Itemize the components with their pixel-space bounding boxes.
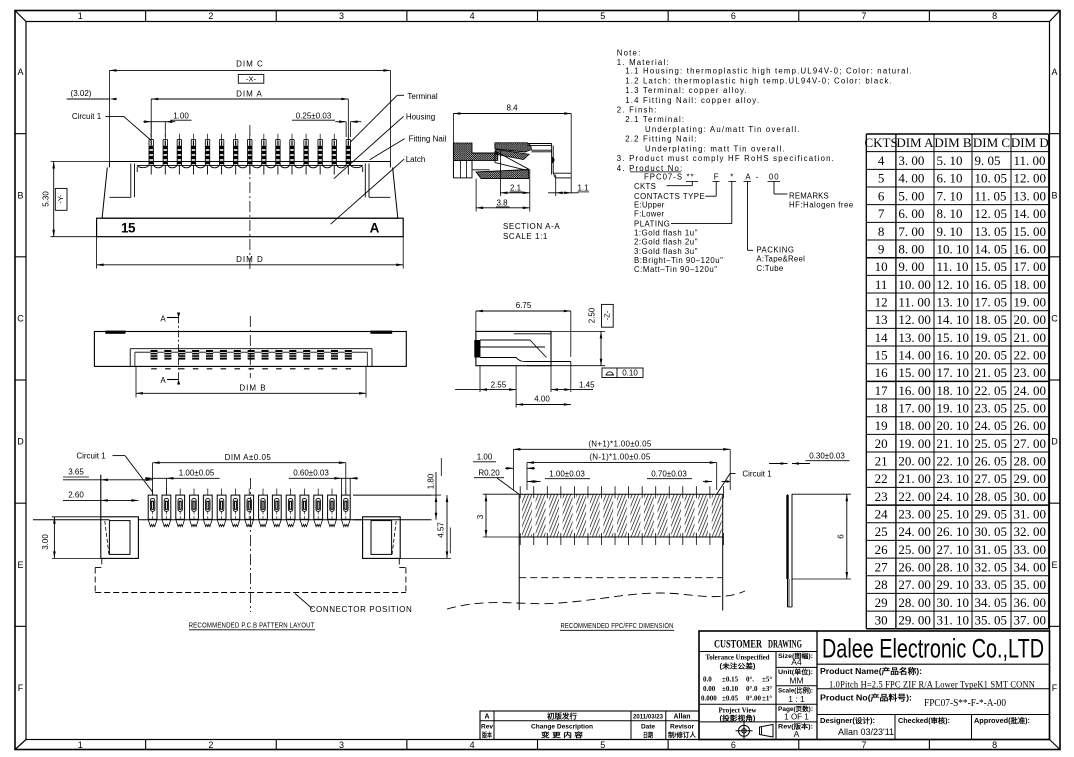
- svg-text:6. 00: 6. 00: [898, 206, 924, 221]
- svg-text:0.10: 0.10: [622, 369, 638, 378]
- svg-text:2.55: 2.55: [491, 380, 507, 389]
- svg-text:*: *: [730, 173, 733, 182]
- svg-text:19: 19: [875, 418, 888, 433]
- svg-text:27: 27: [875, 559, 889, 574]
- svg-text:日期: 日期: [643, 730, 653, 739]
- svg-text:21: 21: [875, 453, 888, 468]
- svg-text:14. 05: 14. 05: [975, 241, 1008, 256]
- svg-text:15. 05: 15. 05: [975, 259, 1008, 274]
- svg-text:27. 10: 27. 10: [937, 542, 970, 557]
- svg-text:8: 8: [992, 11, 997, 21]
- svg-text:1 : 1: 1 : 1: [788, 694, 805, 704]
- svg-text:C:Tube: C:Tube: [756, 264, 783, 273]
- svg-text:31. 00: 31. 00: [1014, 506, 1047, 521]
- svg-text:35. 05: 35. 05: [975, 612, 1008, 627]
- svg-text:17. 00: 17. 00: [1014, 259, 1047, 274]
- svg-text:1.00±0.03: 1.00±0.03: [549, 469, 585, 478]
- svg-text:0.000: 0.000: [701, 695, 717, 703]
- svg-text:DIM C: DIM C: [236, 60, 264, 69]
- svg-text:19. 00: 19. 00: [1014, 294, 1047, 309]
- svg-text:版本: 版本: [481, 730, 492, 739]
- svg-text:26. 05: 26. 05: [975, 453, 1008, 468]
- svg-text:Product No(产品料号):: Product No(产品料号):: [820, 693, 912, 703]
- svg-text:PLATING: PLATING: [634, 219, 670, 228]
- svg-text:9: 9: [878, 241, 885, 256]
- svg-text:24. 00: 24. 00: [1014, 383, 1047, 398]
- svg-text:D: D: [1051, 437, 1058, 447]
- svg-text:5: 5: [600, 740, 605, 750]
- svg-text:7. 10: 7. 10: [937, 188, 963, 203]
- svg-text:26. 00: 26. 00: [898, 559, 931, 574]
- svg-text:13: 13: [875, 312, 888, 327]
- svg-text:2.1 Terminal:: 2.1 Terminal:: [625, 115, 685, 124]
- svg-text:DIM D: DIM D: [1011, 135, 1049, 150]
- svg-text:23. 05: 23. 05: [975, 400, 1008, 415]
- svg-text:3.8: 3.8: [496, 198, 508, 207]
- svg-text:MM: MM: [789, 675, 803, 685]
- svg-text:Dalee Electronic Co.,LTD: Dalee Electronic Co.,LTD: [822, 634, 1044, 664]
- svg-text:24. 10: 24. 10: [937, 489, 970, 504]
- svg-text:16. 10: 16. 10: [937, 347, 970, 362]
- svg-text:21. 10: 21. 10: [937, 436, 970, 451]
- svg-text:A: A: [160, 376, 166, 385]
- svg-text:29. 05: 29. 05: [975, 506, 1008, 521]
- svg-text:25. 00: 25. 00: [1014, 400, 1047, 415]
- svg-text:11. 10: 11. 10: [937, 259, 969, 274]
- svg-text:25. 05: 25. 05: [975, 436, 1008, 451]
- svg-text:6: 6: [878, 188, 885, 203]
- svg-text:1.00±0.05: 1.00±0.05: [179, 469, 215, 478]
- svg-text:22. 10: 22. 10: [937, 453, 970, 468]
- svg-text:3.00: 3.00: [41, 534, 50, 550]
- svg-text:4.00: 4.00: [534, 395, 550, 404]
- svg-text:Designer(设计):: Designer(设计):: [820, 716, 875, 725]
- svg-text:27. 00: 27. 00: [1014, 436, 1047, 451]
- svg-text:A: A: [1051, 67, 1057, 77]
- svg-text:27. 00: 27. 00: [898, 577, 931, 592]
- svg-text:1.3 Terminal: copper alloy.: 1.3 Terminal: copper alloy.: [625, 86, 748, 95]
- svg-text:22. 00: 22. 00: [1014, 347, 1047, 362]
- svg-text:10: 10: [875, 259, 888, 274]
- svg-text:1.1 Housing: thermoplastic: 1.1 Housing: thermoplastic high temp.UL9…: [625, 67, 913, 76]
- svg-text:PACKING: PACKING: [756, 246, 794, 255]
- svg-text:0.60±0.03: 0.60±0.03: [293, 469, 329, 478]
- svg-text:2.1: 2.1: [510, 183, 522, 192]
- svg-text:DIM B: DIM B: [239, 383, 266, 392]
- svg-text:1: 1: [78, 740, 83, 750]
- svg-text:32. 00: 32. 00: [1014, 524, 1047, 539]
- svg-text:13. 05: 13. 05: [975, 224, 1008, 239]
- svg-text:13. 10: 13. 10: [937, 294, 970, 309]
- svg-text:4. 00: 4. 00: [898, 171, 924, 186]
- svg-text:12. 00: 12. 00: [1014, 171, 1047, 186]
- svg-text:11. 00: 11. 00: [1014, 153, 1046, 168]
- svg-text:21. 00: 21. 00: [898, 471, 931, 486]
- svg-text:Revisor: Revisor: [670, 723, 694, 730]
- svg-text:20: 20: [875, 436, 888, 451]
- svg-text:C: C: [1051, 313, 1058, 323]
- svg-text:FPC07-S: FPC07-S: [644, 173, 683, 182]
- svg-text:0.30±0.03: 0.30±0.03: [809, 451, 845, 460]
- svg-text:A: A: [160, 314, 166, 323]
- svg-text:F:Lower: F:Lower: [634, 209, 664, 218]
- svg-text:23: 23: [875, 489, 888, 504]
- svg-text:Circuit 1: Circuit 1: [742, 469, 772, 478]
- svg-text:15: 15: [121, 221, 136, 236]
- svg-text:18. 05: 18. 05: [975, 312, 1008, 327]
- svg-text:22. 05: 22. 05: [975, 383, 1008, 398]
- svg-text:Change Description: Change Description: [531, 723, 593, 730]
- svg-text:24: 24: [875, 506, 889, 521]
- svg-text:1.80: 1.80: [426, 473, 435, 489]
- svg-text:9. 10: 9. 10: [937, 224, 963, 239]
- svg-text:22. 00: 22. 00: [898, 489, 931, 504]
- svg-text:17: 17: [875, 383, 889, 398]
- svg-text:E: E: [17, 560, 23, 570]
- svg-text:12. 00: 12. 00: [898, 312, 931, 327]
- svg-text:36. 00: 36. 00: [1014, 595, 1047, 610]
- svg-text:A: A: [370, 221, 380, 236]
- svg-text:19. 00: 19. 00: [898, 436, 931, 451]
- svg-text:12. 05: 12. 05: [975, 206, 1008, 221]
- svg-text:5. 00: 5. 00: [898, 188, 924, 203]
- svg-text:2: 2: [208, 740, 213, 750]
- svg-text:Underplating: matt Tin over: Underplating: matt Tin overall.: [645, 144, 786, 153]
- svg-text:29. 10: 29. 10: [937, 577, 970, 592]
- svg-text:8.4: 8.4: [506, 104, 518, 113]
- svg-text:4: 4: [470, 740, 475, 750]
- svg-text:±0.05: ±0.05: [722, 695, 739, 703]
- svg-text:28. 00: 28. 00: [898, 595, 931, 610]
- svg-text:3:Gold flash 3u": 3:Gold flash 3u": [634, 247, 698, 256]
- svg-text:22: 22: [875, 471, 888, 486]
- svg-text:35. 00: 35. 00: [1014, 577, 1047, 592]
- svg-text:7: 7: [862, 740, 867, 750]
- svg-text:17. 05: 17. 05: [975, 294, 1008, 309]
- svg-text:6. 10: 6. 10: [937, 171, 963, 186]
- svg-text:±1°: ±1°: [762, 695, 772, 703]
- svg-text:20. 00: 20. 00: [898, 453, 931, 468]
- svg-text:Allan 03/23'11: Allan 03/23'11: [838, 727, 894, 737]
- svg-text:F: F: [18, 683, 24, 693]
- svg-text:10. 10: 10. 10: [937, 241, 970, 256]
- svg-text:3. Product must comply HF: 3. Product must comply HF RoHS specifica…: [617, 154, 835, 163]
- svg-text:32. 05: 32. 05: [975, 559, 1008, 574]
- svg-text:制/修订人: 制/修订人: [668, 730, 696, 739]
- svg-text:28. 00: 28. 00: [1014, 453, 1047, 468]
- svg-text:31. 05: 31. 05: [975, 542, 1008, 557]
- svg-text:±0.10: ±0.10: [722, 685, 739, 693]
- svg-text:Project View: Project View: [719, 706, 758, 714]
- svg-text:2.60: 2.60: [68, 491, 84, 500]
- svg-text:DIM A: DIM A: [896, 135, 934, 150]
- svg-text:7: 7: [862, 11, 867, 21]
- svg-text:18. 10: 18. 10: [937, 383, 970, 398]
- svg-text:30. 00: 30. 00: [1014, 489, 1047, 504]
- svg-text:B: B: [17, 190, 23, 200]
- svg-text:11: 11: [875, 277, 888, 292]
- svg-text:29: 29: [875, 595, 888, 610]
- svg-text:20. 00: 20. 00: [1014, 312, 1047, 327]
- svg-text:R0.20: R0.20: [478, 468, 500, 477]
- svg-text:20. 10: 20. 10: [937, 418, 970, 433]
- svg-text:19. 05: 19. 05: [975, 330, 1008, 345]
- svg-text:15. 10: 15. 10: [937, 330, 970, 345]
- svg-text:15. 00: 15. 00: [1014, 224, 1047, 239]
- svg-text:26. 00: 26. 00: [1014, 418, 1047, 433]
- svg-text:25: 25: [875, 524, 888, 539]
- svg-text:21. 05: 21. 05: [975, 365, 1008, 380]
- svg-text:21. 00: 21. 00: [1014, 330, 1047, 345]
- svg-text:9. 00: 9. 00: [898, 259, 924, 274]
- svg-text:4: 4: [470, 11, 475, 21]
- svg-text:1.1: 1.1: [577, 183, 589, 192]
- svg-text:12. 10: 12. 10: [937, 277, 970, 292]
- svg-text:26. 10: 26. 10: [937, 524, 970, 539]
- svg-text:Note:: Note:: [617, 48, 642, 57]
- svg-text:Housing: Housing: [406, 113, 435, 122]
- svg-text:3: 3: [339, 11, 344, 21]
- svg-text:-: -: [756, 173, 759, 182]
- svg-text:REMARKS: REMARKS: [789, 191, 829, 200]
- svg-text:8. 00: 8. 00: [898, 241, 924, 256]
- svg-text:18. 00: 18. 00: [1014, 277, 1047, 292]
- svg-text:17. 10: 17. 10: [937, 365, 970, 380]
- svg-text:DIM D: DIM D: [236, 255, 264, 264]
- svg-text:6.75: 6.75: [516, 301, 532, 310]
- svg-text:14. 00: 14. 00: [1014, 206, 1047, 221]
- svg-text:Circuit 1: Circuit 1: [72, 112, 102, 121]
- svg-text:Allan: Allan: [673, 713, 690, 720]
- svg-text:6: 6: [731, 740, 736, 750]
- svg-text:11. 00: 11. 00: [898, 294, 930, 309]
- svg-text:F: F: [1052, 683, 1058, 693]
- svg-text:17. 00: 17. 00: [898, 400, 931, 415]
- svg-text:25. 10: 25. 10: [937, 506, 970, 521]
- svg-text:FPC07-S**-F-*-A-00: FPC07-S**-F-*-A-00: [924, 698, 1006, 709]
- svg-text:1: 1: [78, 11, 83, 21]
- svg-text:A: A: [745, 173, 751, 182]
- svg-text:33. 05: 33. 05: [975, 577, 1008, 592]
- svg-text:5: 5: [600, 11, 605, 21]
- svg-text:20. 05: 20. 05: [975, 347, 1008, 362]
- svg-text:(N-1)*1.00±0.05: (N-1)*1.00±0.05: [589, 453, 651, 462]
- svg-text:DIM B: DIM B: [934, 135, 972, 150]
- svg-text:0°.00: 0°.00: [746, 695, 762, 703]
- svg-text:12: 12: [875, 294, 888, 309]
- svg-text:2:Gold flash 2u": 2:Gold flash 2u": [634, 238, 698, 247]
- svg-text:16. 00: 16. 00: [898, 383, 931, 398]
- svg-text:7: 7: [878, 206, 885, 221]
- svg-text:34. 05: 34. 05: [975, 595, 1008, 610]
- svg-text:8: 8: [992, 740, 997, 750]
- svg-text:(N+1)*1.00±0.05: (N+1)*1.00±0.05: [588, 439, 652, 448]
- svg-text:CKTS: CKTS: [634, 182, 656, 191]
- svg-text:26: 26: [875, 542, 889, 557]
- svg-text:24. 05: 24. 05: [975, 418, 1008, 433]
- svg-text:±5°: ±5°: [762, 676, 772, 684]
- svg-text:1.00: 1.00: [477, 453, 493, 462]
- svg-text:-X-: -X-: [246, 75, 257, 84]
- svg-text:2011/03/23: 2011/03/23: [633, 713, 663, 720]
- svg-text:3.65: 3.65: [68, 467, 84, 476]
- svg-text:29. 00: 29. 00: [898, 612, 931, 627]
- svg-text:10. 05: 10. 05: [975, 171, 1008, 186]
- svg-text:23. 10: 23. 10: [937, 471, 970, 486]
- svg-text:24. 00: 24. 00: [898, 524, 931, 539]
- svg-text:A:Tape&Reel: A:Tape&Reel: [756, 255, 805, 264]
- svg-text:SECTION A-A: SECTION A-A: [503, 222, 560, 231]
- svg-text:5. 10: 5. 10: [937, 153, 963, 168]
- svg-text:3: 3: [339, 740, 344, 750]
- svg-text:±0.15: ±0.15: [722, 676, 739, 684]
- svg-text:3. 00: 3. 00: [898, 153, 924, 168]
- svg-text:31. 10: 31. 10: [937, 612, 970, 627]
- svg-text:Tolerance Unspecified: Tolerance Unspecified: [706, 653, 770, 661]
- svg-text:1 OF 1: 1 OF 1: [784, 713, 809, 722]
- svg-text:Rev: Rev: [481, 723, 493, 730]
- svg-text:Approved(批准):: Approved(批准):: [974, 716, 1030, 725]
- svg-text:B:Bright–Tin 90–120u": B:Bright–Tin 90–120u": [634, 256, 723, 265]
- svg-text:4. Product No:: 4. Product No:: [617, 164, 684, 173]
- svg-text:0.00: 0.00: [703, 685, 716, 693]
- svg-text:1.2 Latch: thermoplastic hi: 1.2 Latch: thermoplastic high temp.UL94V…: [625, 76, 893, 85]
- svg-text:HF:Halogen free: HF:Halogen free: [789, 201, 854, 210]
- svg-text:9. 05: 9. 05: [975, 153, 1001, 168]
- svg-text:6: 6: [837, 534, 846, 539]
- svg-text:A: A: [484, 713, 489, 720]
- svg-text:B: B: [1051, 190, 1057, 200]
- svg-text:25. 00: 25. 00: [898, 542, 931, 557]
- svg-text:23. 00: 23. 00: [1014, 365, 1047, 380]
- svg-text:C:Matt–Tin 90–120u": C:Matt–Tin 90–120u": [634, 265, 718, 274]
- svg-text:(3.02): (3.02): [71, 89, 92, 98]
- svg-text:2.50: 2.50: [588, 307, 597, 323]
- svg-text:11. 05: 11. 05: [975, 188, 1007, 203]
- svg-text:CONNECTOR POSITION: CONNECTOR POSITION: [310, 605, 413, 614]
- svg-text:CUSTOMER: CUSTOMER: [714, 639, 762, 651]
- svg-text:1:Gold flash 1u": 1:Gold flash 1u": [634, 229, 698, 238]
- svg-text:C: C: [17, 313, 24, 323]
- svg-text:15. 00: 15. 00: [898, 365, 931, 380]
- svg-text:0.25±0.03: 0.25±0.03: [296, 111, 332, 120]
- svg-text:0°.: 0°.: [746, 676, 754, 684]
- svg-text:**: **: [687, 173, 695, 182]
- svg-text:Fitting Nail: Fitting Nail: [409, 134, 447, 143]
- svg-text:-Z-: -Z-: [603, 310, 612, 320]
- svg-text:3: 3: [476, 514, 485, 519]
- svg-text:Page(页数):: Page(页数):: [778, 704, 813, 713]
- svg-text:7. 00: 7. 00: [898, 224, 924, 239]
- svg-text:RECOMMENDED P.C.B PATTERN LAYO: RECOMMENDED P.C.B PATTERN LAYOUT: [189, 620, 315, 629]
- svg-text:Product Name(产品名称):: Product Name(产品名称):: [820, 666, 922, 676]
- svg-text:DIM C: DIM C: [973, 135, 1010, 150]
- svg-text:28. 05: 28. 05: [975, 489, 1008, 504]
- svg-text:28. 10: 28. 10: [937, 559, 970, 574]
- svg-text:14. 10: 14. 10: [937, 312, 970, 327]
- svg-text:18: 18: [875, 400, 888, 415]
- svg-text:18. 00: 18. 00: [898, 418, 931, 433]
- svg-text:-Y-: -Y-: [56, 194, 65, 204]
- svg-text:1.0Pitch H=2.5 FPC ZIF R/A Low: 1.0Pitch H=2.5 FPC ZIF R/A Lower TypeK1 …: [829, 680, 1035, 690]
- svg-text:28: 28: [875, 577, 888, 592]
- svg-text:1.4 Fitting Nail: copper a: 1.4 Fitting Nail: copper alloy.: [625, 96, 760, 105]
- svg-text:1.00: 1.00: [173, 111, 189, 120]
- svg-text:19. 10: 19. 10: [937, 400, 970, 415]
- svg-text:5.30: 5.30: [41, 191, 50, 207]
- svg-text:15: 15: [875, 347, 888, 362]
- svg-text:Checked(审核):: Checked(审核):: [898, 716, 950, 725]
- svg-text:A: A: [794, 729, 800, 739]
- svg-text:初版发行: 初版发行: [547, 711, 577, 720]
- svg-text:SCALE 1:1: SCALE 1:1: [503, 232, 548, 241]
- svg-text:10. 00: 10. 00: [898, 277, 931, 292]
- svg-text:23. 00: 23. 00: [898, 506, 931, 521]
- svg-text:RECOMMENDED FPC/FFC DIMENSION: RECOMMENDED FPC/FFC DIMENSION: [561, 621, 674, 630]
- svg-text:E: E: [1051, 560, 1057, 570]
- svg-text:变 更 内 容: 变 更 内 容: [541, 730, 584, 739]
- svg-text:27. 05: 27. 05: [975, 471, 1008, 486]
- svg-text:D: D: [17, 437, 24, 447]
- svg-text:14: 14: [875, 330, 889, 345]
- svg-text:E:Upper: E:Upper: [634, 201, 665, 210]
- svg-text:16. 05: 16. 05: [975, 277, 1008, 292]
- svg-text:13. 00: 13. 00: [1014, 188, 1047, 203]
- svg-text:Underplating: Au/matt Tin o: Underplating: Au/matt Tin overall.: [645, 125, 801, 134]
- svg-text:4.57: 4.57: [437, 522, 446, 538]
- svg-text:2.2 Fitting Nail:: 2.2 Fitting Nail:: [625, 135, 697, 144]
- svg-text:0°.0: 0°.0: [746, 685, 758, 693]
- svg-text:16. 00: 16. 00: [1014, 241, 1047, 256]
- svg-text:14. 00: 14. 00: [898, 347, 931, 362]
- svg-text:(未注公差): (未注公差): [720, 662, 756, 671]
- svg-text:Terminal: Terminal: [407, 92, 437, 101]
- svg-text:2: 2: [208, 11, 213, 21]
- svg-text:4: 4: [878, 153, 885, 168]
- svg-text:13. 00: 13. 00: [898, 330, 931, 345]
- svg-text:±3°: ±3°: [762, 685, 772, 693]
- svg-text:CKTS: CKTS: [864, 135, 897, 150]
- svg-text:Date: Date: [641, 723, 655, 730]
- svg-text:33. 00: 33. 00: [1014, 542, 1047, 557]
- svg-text:DIM A: DIM A: [236, 90, 263, 99]
- svg-text:DRAWING: DRAWING: [768, 639, 802, 651]
- svg-text:A4: A4: [791, 657, 802, 667]
- svg-text:34. 00: 34. 00: [1014, 559, 1047, 574]
- svg-text:00: 00: [769, 173, 780, 182]
- svg-text:Circuit 1: Circuit 1: [76, 451, 106, 460]
- svg-text:5: 5: [878, 171, 885, 186]
- svg-text:DIM A±0.05: DIM A±0.05: [225, 453, 272, 462]
- svg-text:2. Finsh:: 2. Finsh:: [617, 106, 658, 115]
- svg-text:37. 00: 37. 00: [1014, 612, 1047, 627]
- svg-text:0.70±0.03: 0.70±0.03: [651, 469, 687, 478]
- svg-text:A: A: [17, 67, 23, 77]
- svg-text:30. 05: 30. 05: [975, 524, 1008, 539]
- svg-text:30: 30: [875, 612, 888, 627]
- svg-text:30. 10: 30. 10: [937, 595, 970, 610]
- svg-text:F: F: [714, 173, 719, 182]
- svg-text:8: 8: [878, 224, 885, 239]
- svg-text:(投影视角): (投影视角): [720, 713, 756, 722]
- svg-text:16: 16: [875, 365, 889, 380]
- svg-text:6: 6: [731, 11, 736, 21]
- svg-text:1.45: 1.45: [579, 380, 595, 389]
- svg-text:Latch: Latch: [406, 155, 426, 164]
- svg-text:0.0: 0.0: [703, 676, 712, 684]
- svg-text:8. 10: 8. 10: [937, 206, 963, 221]
- svg-text:29. 00: 29. 00: [1014, 471, 1047, 486]
